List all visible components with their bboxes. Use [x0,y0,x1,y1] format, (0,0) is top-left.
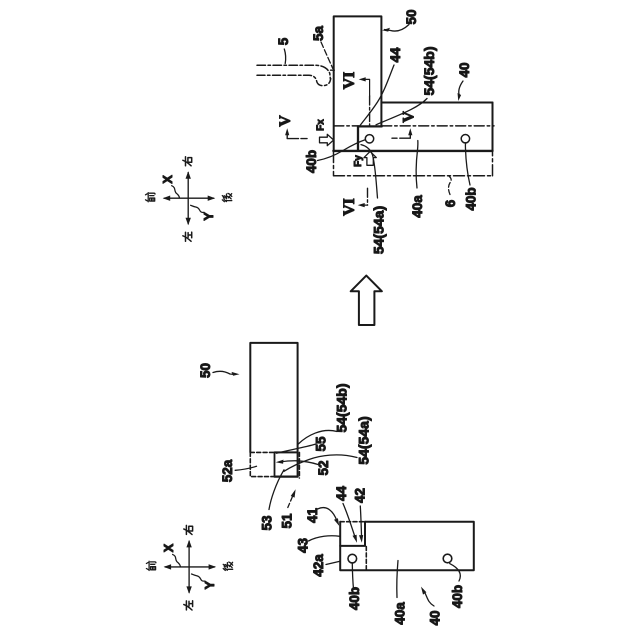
hole 40b right (upper) [461,135,469,143]
section arrow V (left) [287,132,298,139]
bracket 52 step vertical (solid) [274,452,276,476]
svg-text:41: 41 [305,508,320,524]
bracket step top edge (weld seam 54) [358,126,382,150]
svg-text:44: 44 [334,486,349,502]
leader 44 (upper) [360,65,394,126]
svg-text:53: 53 [260,515,275,531]
bracket 42 notch [340,522,365,546]
svg-text:V: V [401,111,418,123]
svg-text:52a: 52a [220,459,235,482]
leader 40a (upper) [416,141,418,189]
svg-text:40a: 40a [393,602,408,625]
tick at frame edge for 5a [331,69,335,71]
svg-text:40: 40 [428,610,443,625]
leader 40 (upper) with arrowhead [459,81,463,96]
hole 40b left (upper) [365,135,373,143]
leader 40b (upper left) [318,140,366,161]
leader 54(54b) (lower) [298,430,337,444]
stabilizer 5 phantom tube lower line and hook [257,75,331,85]
member 50 bottom edge hidden part (dashed) [250,451,274,453]
frame member 50 (lower, exploded) [250,343,297,477]
cross member 40 (upper) top edge [382,102,493,104]
leader 54(54b) (upper) [376,99,427,125]
cross member 40 (upper) right edge [492,103,494,151]
svg-text:54(54b): 54(54b) [333,383,349,432]
svg-text:40b: 40b [464,187,479,210]
leader 40b (lower left) [352,563,353,589]
leader 52a [235,466,256,470]
leader 54(54a) (lower) [284,455,357,471]
leader 52 with arrowhead [280,461,318,465]
bracket 52 bottom solid [275,476,298,478]
leader 55 [277,444,317,453]
leader 42a [326,561,340,564]
member 50 bottom edge solid part [275,451,298,453]
svg-text:43: 43 [296,538,311,554]
section arrow V (right) [400,132,411,139]
leader 42 with arrowhead [360,506,361,539]
leader 50 (lower) with arrowhead [213,371,235,374]
leader 40b (upper right) [465,143,470,185]
bracket 52 hidden outline (dashed) [250,452,274,476]
svg-text:50: 50 [198,363,213,378]
svg-text:40a: 40a [410,195,425,218]
svg-text:50: 50 [404,9,419,24]
svg-text:VI: VI [341,72,358,90]
cross member 40 (upper) bottom edge [333,150,492,152]
svg-text:52: 52 [316,460,331,475]
svg-text:40: 40 [457,62,472,77]
leader 40a (lower) [397,561,398,598]
svg-text:51: 51 [280,513,295,529]
svg-text:Fy: Fy [353,155,364,167]
hole 40b right (lower) [443,554,452,563]
svg-text:40b: 40b [347,587,362,610]
svg-text:40b: 40b [304,150,319,173]
leader 40b (lower right) [450,564,461,581]
svg-text:V: V [277,115,294,127]
LOWER-FIGURE [198,276,474,626]
svg-text:54(54b): 54(54b) [421,46,437,95]
leader 5a (dashed) [321,42,333,69]
svg-text:VI: VI [341,198,358,216]
leader 40 (lower) with arrowhead [425,593,434,606]
stabilizer 5 phantom tube upper line [257,65,330,78]
section arrow VI (top) [362,79,370,96]
leader 6 (broken) [449,177,452,195]
cross member 40 (lower) solid outline [340,522,474,571]
svg-text:40b: 40b [450,585,465,608]
svg-text:5: 5 [276,37,291,45]
leader 43 [309,536,340,541]
cross member 40 (lower, exploded) top hidden edge [340,521,365,523]
section arrow VI (bottom) [361,204,368,206]
leader 41 with arrowhead [318,508,338,521]
section line VI dash-dot [369,96,371,126]
leader 50 (upper) with arrowhead [385,25,410,32]
frame member 50 (upper, assembled) [334,16,382,151]
coordinate axes (upper) [146,157,232,242]
coordinate axes (lower) [146,525,232,610]
svg-text:44: 44 [388,47,403,63]
leader 5 [284,49,285,64]
svg-text:42: 42 [353,488,368,503]
svg-text:5a: 5a [311,26,326,42]
leader 54(54a) (upper) [361,145,378,198]
bracket 52 hidden edge right (dashed) [298,452,300,478]
hole 40b left (lower) [348,554,357,563]
UPPER-FIGURE [257,9,494,254]
svg-text:54(54a): 54(54a) [371,206,387,254]
bracket 42 hidden edge (dashed) [365,547,367,571]
force Fy hollow arrow [364,151,376,165]
leader 44 (lower) with arrowhead [343,504,356,539]
body frame 6 dash-dot outline [334,151,493,176]
leader 51 (dashed with arrowhead) [288,494,294,508]
svg-text:Fx: Fx [316,119,327,131]
svg-text:54(54a): 54(54a) [356,416,372,464]
big hollow transition arrow [351,276,382,325]
svg-text:6: 6 [443,199,458,207]
centerline of member 40 [334,125,494,127]
force Fx hollow arrow [320,134,334,145]
svg-text:42a: 42a [311,554,326,577]
leader 53 [269,470,284,510]
